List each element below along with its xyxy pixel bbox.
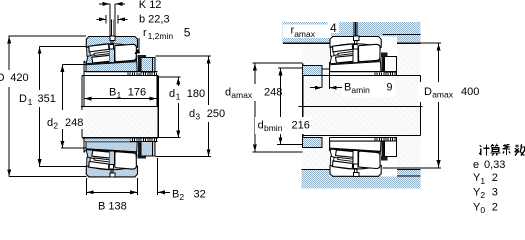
svg-text:b 22,3: b 22,3 [139, 13, 170, 25]
sleeve small-end face [329, 62, 331, 76]
bearing on sleeve, upper half (right figure) [330, 36, 398, 75]
lubrication hole [355, 40, 357, 44]
svg-text:0,33: 0,33 [484, 159, 505, 171]
svg-text:bmin: bmin [264, 123, 283, 133]
svg-text:D: D [0, 72, 5, 84]
svg-text:B 138: B 138 [98, 201, 127, 213]
svg-text:2: 2 [179, 192, 184, 202]
svg-text:32: 32 [194, 189, 206, 201]
bearing with adapter sleeve, lower half (left figure, mirrored) [82, 138, 158, 177]
算 [491, 145, 501, 156]
bearing body backing [84, 37, 158, 76]
shaft (right figure) [303, 64, 421, 149]
figure air region hatch [302, 44, 421, 170]
svg-text:248: 248 [264, 87, 282, 99]
svg-text:D: D [19, 93, 27, 105]
dimension d2 248 [45, 65, 87, 149]
svg-text:1: 1 [117, 90, 122, 100]
svg-text:d: d [258, 120, 264, 132]
svg-text:1: 1 [28, 97, 33, 107]
housing lower band [302, 169, 421, 188]
svg-text:176: 176 [128, 87, 146, 99]
svg-text:B: B [109, 87, 116, 99]
label r 1,2min 5 with leader [134, 26, 191, 55]
abutment spacer ring upper [303, 66, 322, 76]
lock nut [384, 57, 396, 72]
locking washer [382, 57, 385, 72]
dimension dbmin 216 [255, 68, 311, 145]
inner ring left shoulder [87, 47, 91, 56]
dimension damax 248 [222, 63, 303, 152]
housing upper band [283, 22, 421, 44]
roller lower-left [336, 55, 357, 63]
svg-text:d: d [169, 88, 175, 100]
svg-text:4: 4 [330, 21, 337, 35]
svg-text:5: 5 [184, 26, 191, 40]
svg-text:400: 400 [461, 86, 479, 98]
svg-text:351: 351 [38, 93, 56, 105]
roller right (full barrel) [359, 44, 381, 61]
locking washer [138, 57, 141, 72]
svg-text:2: 2 [53, 121, 58, 131]
hole outlet bulb [110, 44, 114, 48]
sleeve thread ticks [128, 72, 156, 75]
svg-text:1,2min: 1,2min [148, 31, 174, 41]
系 [503, 144, 511, 155]
sleeve thin section [82, 72, 158, 76]
cage bar left [94, 51, 109, 55]
table heading 计算系数 (drawn glyphs) [479, 144, 525, 156]
label r amax 4 [283, 21, 339, 39]
washer tab [138, 55, 147, 60]
svg-text:amax: amax [432, 90, 454, 100]
svg-text:D: D [424, 86, 432, 98]
axis line [81, 105, 158, 107]
svg-text:1: 1 [480, 176, 485, 186]
shaft (left figure) [82, 76, 158, 138]
inner ring left shoulder [330, 47, 334, 56]
svg-text:2: 2 [480, 190, 485, 200]
centre guide flange [353, 49, 358, 62]
sleeve wedge [330, 62, 381, 72]
dimension B2 32 [130, 158, 206, 202]
dimension b 22,3 [97, 13, 170, 25]
dimension Damax 400 [383, 43, 487, 168]
centre guide flange [109, 49, 114, 62]
dimension d1 180 [158, 77, 208, 138]
svg-text:3: 3 [195, 112, 200, 122]
adapter sleeve wedge [86, 62, 137, 72]
groove notch [354, 36, 359, 40]
svg-text:2: 2 [492, 172, 498, 184]
svg-text:248: 248 [65, 117, 83, 129]
dimension d3 250 [155, 56, 228, 156]
roller upper-left (sectioned) [89, 44, 109, 52]
sleeve small-end face [84, 61, 86, 76]
svg-text:B: B [344, 82, 351, 94]
svg-text:K 12: K 12 [139, 0, 162, 11]
housing K-hole lines [354, 22, 357, 43]
svg-text:d: d [47, 117, 53, 129]
roller right (full barrel) [115, 44, 137, 61]
dimension D1 351 [19, 46, 87, 166]
svg-text:3: 3 [492, 187, 498, 199]
bearing on sleeve, lower half (right figure, mirrored) [330, 137, 398, 176]
svg-text:d: d [225, 87, 231, 99]
dimension B 138 [86, 178, 137, 213]
svg-text:9: 9 [386, 82, 392, 94]
dimension D 420 [0, 36, 87, 177]
axis line (right figure) [299, 105, 423, 107]
inner ring [86, 53, 136, 64]
svg-text:216: 216 [292, 120, 310, 132]
svg-text:e: e [473, 159, 479, 171]
数 [515, 144, 525, 156]
bearing body backing [330, 37, 398, 76]
outer ring [86, 37, 137, 48]
cage bar left [338, 51, 353, 55]
svg-text:250: 250 [207, 108, 225, 120]
sleeve outer surface (lower strip) [84, 138, 130, 141]
svg-text:0: 0 [480, 205, 485, 215]
lubrication groove notch W33 [110, 36, 115, 40]
washer tab [381, 53, 387, 57]
label box B1 with extension lines [84, 76, 157, 106]
abutment spacer ring lower [303, 137, 322, 147]
计 [479, 145, 489, 156]
nut relief line [151, 57, 153, 71]
roller lower-left [92, 55, 113, 63]
svg-text:420: 420 [10, 72, 28, 84]
sleeve thin section [330, 72, 397, 76]
hole outlet bulb [353, 44, 357, 48]
outer ring [330, 37, 381, 48]
dimension B1 176 [84, 87, 157, 101]
svg-text:d: d [189, 108, 195, 120]
svg-text:amin: amin [351, 85, 370, 95]
bearing with adapter sleeve, upper half (left figure) [82, 36, 158, 75]
svg-text:amax: amax [294, 29, 316, 39]
svg-text:1: 1 [176, 92, 181, 102]
dimension Bamin 9 [310, 76, 395, 97]
dimension K 12 [99, 0, 161, 36]
lock nut [141, 57, 155, 71]
thread ticks [375, 72, 397, 75]
sleeve gap step line [322, 68, 330, 70]
svg-text:r: r [143, 27, 147, 39]
svg-text:amax: amax [231, 90, 253, 100]
inner ring [330, 53, 380, 64]
roller upper-left (sectioned) [333, 44, 353, 52]
svg-text:B: B [172, 189, 179, 201]
svg-text:2: 2 [492, 201, 498, 213]
lubrication hole [111, 40, 113, 44]
svg-text:180: 180 [187, 88, 205, 100]
